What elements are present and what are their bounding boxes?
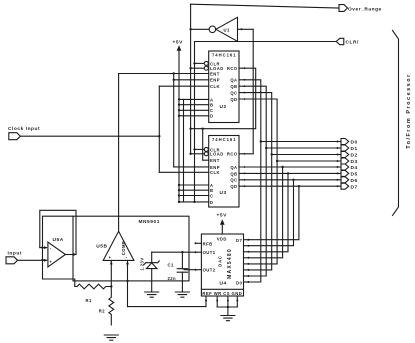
- wire ENT U2: [119, 73, 209, 75]
- wire channel bus 2: [183, 99, 185, 201]
- wire R1 feed: [43, 260, 78, 287]
- wire U1 output to node: [191, 28, 210, 30]
- wire minus net up and over: [43, 216, 74, 260]
- svg-text:D6: D6: [351, 178, 358, 184]
- svg-text:LOAD: LOAD: [210, 66, 224, 71]
- svg-text:+5V: +5V: [217, 213, 228, 219]
- node D2 stub tap: [271, 153, 273, 155]
- wire B U3: [179, 189, 209, 191]
- svg-text:-: -: [50, 246, 52, 251]
- svg-text:RCO: RCO: [227, 152, 238, 157]
- wire comparator to ENT vertical: [118, 74, 120, 232]
- svg-text:OUT2: OUT2: [203, 268, 216, 273]
- connector D1: [337, 147, 339, 149]
- wire U1 input: [238, 28, 254, 30]
- capacitor C1 22n: [181, 252, 183, 269]
- svg-text:U2: U2: [220, 104, 227, 110]
- wire C U3: [179, 195, 209, 197]
- wire U2 QA to D0 column: [239, 80, 261, 282]
- svg-text:C: C: [210, 193, 213, 198]
- node D U3: [178, 201, 180, 203]
- node OUT2: [195, 269, 197, 271]
- wire clock vertical: [158, 86, 160, 172]
- wire D7 column to DAC: [248, 186, 299, 240]
- wire input: [18, 259, 47, 261]
- node feedback tap: [73, 253, 75, 255]
- svg-text:QD: QD: [230, 184, 237, 189]
- svg-text:RCO: RCO: [227, 66, 238, 71]
- node REF pin: [205, 300, 207, 302]
- svg-text:D: D: [210, 114, 213, 119]
- node U3 D tap: [193, 201, 195, 203]
- node OUT1: [195, 251, 197, 253]
- node right pin U2 QA: [244, 79, 246, 81]
- svg-text:To/From Processor: To/From Processor: [406, 73, 412, 149]
- comparator U5B: [103, 231, 134, 260]
- counter U3 74HC161: [209, 136, 239, 208]
- wire C U2: [179, 109, 209, 111]
- wire D5 column to DAC: [248, 173, 288, 251]
- resistor R1: [77, 284, 111, 289]
- node D0 stub tap: [260, 140, 262, 142]
- svg-text:+5V: +5V: [173, 40, 184, 46]
- node right pin U3 RCO: [244, 153, 246, 155]
- node B U3: [178, 189, 180, 191]
- svg-text:Clock Input: Clock Input: [8, 126, 40, 132]
- svg-text:B: B: [210, 188, 213, 193]
- svg-text:QA: QA: [230, 165, 237, 170]
- wire ENP U3: [174, 166, 209, 168]
- node R1 R2 junction: [110, 285, 112, 287]
- node D5 stub tap: [287, 172, 289, 174]
- svg-text:D: D: [210, 200, 213, 205]
- svg-text:QD: QD: [230, 97, 237, 102]
- svg-text:QA: QA: [230, 78, 237, 83]
- svg-text:B: B: [210, 103, 213, 108]
- wire to ground DAC: [227, 307, 229, 316]
- pin OUT1 wire to zener: [152, 251, 202, 253]
- node input tap: [41, 259, 43, 261]
- wire CLK U2: [159, 85, 208, 87]
- svg-text:D3: D3: [351, 159, 358, 165]
- wire DAC D3 stub: [244, 263, 249, 265]
- node minus crossing: [41, 246, 43, 248]
- svg-text:D0: D0: [351, 140, 358, 146]
- node D1 stub tap: [265, 147, 267, 149]
- wire U3 QD D7 row: [239, 185, 341, 187]
- node D4 stub tap: [281, 166, 283, 168]
- node ENP U2: [173, 79, 175, 81]
- node right pin U3 QB: [244, 173, 246, 175]
- inverter U1: [209, 26, 216, 33]
- wire U3 QC D6 row: [239, 179, 341, 181]
- connector Over_Range: [339, 5, 348, 12]
- connector CLR/: [336, 38, 344, 44]
- wire D4 column to DAC: [248, 167, 282, 258]
- pin OUT2 wire to C1: [184, 269, 201, 271]
- node D U2: [178, 115, 180, 117]
- svg-text:74HC161: 74HC161: [212, 53, 236, 58]
- node DAC pin D4: [247, 257, 249, 259]
- wire REF net: [128, 296, 207, 307]
- wire GND down: [236, 296, 238, 307]
- counter U2 74HC161: [209, 51, 239, 123]
- svg-text:D2: D2: [351, 153, 358, 159]
- svg-text:ENP: ENP: [210, 78, 220, 83]
- ground DAC: [221, 316, 235, 321]
- node jog drop: [202, 128, 204, 130]
- wire DAC D7 stub: [244, 239, 249, 241]
- svg-text:Input: Input: [8, 251, 22, 257]
- node C U3: [178, 194, 180, 196]
- wire U2 RCO jog to U3 ENT: [191, 68, 256, 129]
- wire VDD stem: [221, 225, 223, 234]
- svg-text:ENT: ENT: [210, 71, 220, 76]
- node right pin U3 QC: [244, 179, 246, 181]
- svg-text:QB: QB: [230, 171, 237, 176]
- node D6 stub tap: [292, 179, 294, 181]
- connector D5: [337, 172, 339, 174]
- pin CLR U2: [204, 61, 208, 65]
- svg-text:C1: C1: [168, 263, 174, 268]
- wire DAC D5 stub: [244, 251, 249, 253]
- wire U3 QA D4 row: [239, 166, 341, 168]
- wire U2 QC to D2 column: [239, 93, 272, 270]
- wire D6 column to DAC: [248, 180, 293, 246]
- wire bottom tie: [217, 306, 237, 308]
- wire feedback loop: [40, 210, 76, 254]
- node A U3: [178, 184, 180, 186]
- svg-text:QB: QB: [230, 84, 237, 89]
- svg-text:CLK: CLK: [210, 84, 220, 89]
- ground R2: [104, 335, 118, 340]
- node DAC pin D2: [247, 269, 249, 271]
- node GND pin: [236, 300, 238, 302]
- bracket to processor: [393, 31, 399, 216]
- wire U3 LOAD: [191, 153, 204, 155]
- wire A U2: [179, 98, 209, 100]
- connector D3: [337, 160, 339, 162]
- svg-text:A: A: [210, 97, 213, 102]
- connector D0: [337, 141, 339, 143]
- wire inverter net vertical: [190, 4, 192, 154]
- wire D3 row: [277, 160, 341, 162]
- svg-text:ENT: ENT: [210, 158, 220, 163]
- zener D1 1.23V: [151, 252, 153, 263]
- wire B U2: [179, 104, 209, 106]
- svg-text:OUT1: OUT1: [203, 250, 216, 255]
- pin RFB stub: [196, 242, 202, 244]
- svg-text:D4: D4: [351, 165, 358, 171]
- connector D7: [337, 185, 339, 187]
- wire D1 row: [266, 147, 341, 149]
- node right pin U3 QD: [244, 185, 246, 187]
- node WR pin: [216, 300, 218, 302]
- svg-text:D5: D5: [351, 172, 358, 178]
- svg-text:CLK: CLK: [210, 170, 220, 175]
- wire U2 QD to D3 column: [239, 99, 277, 264]
- node DAC pin D3: [247, 263, 249, 265]
- svg-text:C: C: [210, 108, 213, 113]
- wire DAC D4 stub: [244, 257, 249, 259]
- wire DAC D0 stub: [244, 281, 249, 283]
- svg-text:REF WR CS GND: REF WR CS GND: [202, 291, 242, 296]
- svg-text:QC: QC: [230, 178, 237, 183]
- wire CLR net vertical: [194, 42, 196, 202]
- wire clock horizontal: [20, 135, 159, 137]
- node clock split: [158, 135, 160, 137]
- wire U3 RCO to inverter: [239, 29, 253, 154]
- svg-text:U5B: U5B: [96, 243, 107, 249]
- wire C1 to ground: [181, 272, 183, 292]
- svg-text:VDD: VDD: [217, 237, 227, 242]
- wire over-range top: [191, 4, 339, 8]
- module MN5901: [73, 216, 189, 281]
- svg-text:DAC: DAC: [218, 255, 223, 266]
- wire U3 QB D5 row: [239, 172, 341, 174]
- svg-text:MAX5480: MAX5480: [227, 248, 233, 279]
- node DAC pin D1: [247, 275, 249, 277]
- wire D U3: [179, 201, 209, 203]
- node right pin U2 QC: [244, 92, 246, 94]
- svg-text:RFB: RFB: [203, 242, 213, 247]
- node tie center: [227, 306, 229, 308]
- svg-text:+: +: [49, 259, 52, 264]
- node jog on inverter column: [189, 128, 191, 130]
- svg-text:22n: 22n: [168, 276, 177, 281]
- wire CLR net horizontal: [195, 41, 337, 43]
- ground zener: [145, 292, 159, 297]
- ground C1: [175, 292, 189, 297]
- node minus box crossing: [126, 280, 128, 282]
- wire ENT chain vertical: [173, 74, 175, 167]
- wire WR down: [216, 296, 218, 307]
- svg-text:CLR/: CLR/: [346, 40, 360, 46]
- node A U2: [178, 98, 180, 100]
- svg-text:74HC161: 74HC161: [212, 137, 236, 142]
- node right pin U2 QD: [244, 98, 246, 100]
- wire D U2: [179, 115, 209, 117]
- wire jog drop to U3 ENT: [203, 129, 209, 161]
- node D7 stub tap: [298, 185, 300, 187]
- svg-text:D0: D0: [236, 280, 242, 285]
- pin LOAD U2: [204, 66, 208, 70]
- wire A U3: [179, 184, 209, 186]
- wire U2 QB to D1 column: [239, 86, 266, 276]
- svg-text:LOAD: LOAD: [210, 152, 224, 157]
- svg-text:Over_Range: Over_Range: [348, 6, 382, 12]
- svg-text:1.23V: 1.23V: [139, 257, 144, 270]
- node DAC pin D7: [247, 239, 249, 241]
- svg-text:U4: U4: [220, 281, 227, 287]
- wire zener to ground: [151, 269, 153, 292]
- node LOAD U3 tap: [189, 153, 191, 155]
- svg-text:+: +: [109, 255, 112, 260]
- node LOAD U2 tap: [189, 67, 191, 69]
- connector D6: [337, 179, 339, 181]
- wire comparator plus stub: [110, 260, 112, 286]
- wire CLK U3: [159, 171, 208, 173]
- node U1 output: [189, 28, 191, 30]
- wire U2 CLR: [195, 62, 204, 64]
- svg-text:ENP: ENP: [210, 165, 220, 170]
- wire U5A output: [65, 254, 76, 256]
- wire D2 row: [272, 154, 341, 156]
- wire ENP U2: [174, 79, 209, 81]
- svg-text:D1: D1: [351, 146, 358, 152]
- node right pin U2 QB: [244, 85, 246, 87]
- svg-text:U5A: U5A: [53, 237, 64, 243]
- svg-text:U1: U1: [224, 27, 230, 32]
- svg-text:R1: R1: [86, 298, 92, 303]
- node right pin U2 RCO: [244, 67, 246, 69]
- svg-text:U3: U3: [220, 190, 227, 196]
- node DAC pin D0: [247, 281, 249, 283]
- wire CS down: [227, 296, 229, 307]
- wire DAC D2 stub: [244, 269, 249, 271]
- wire D0 row: [261, 141, 341, 143]
- svg-text:D7: D7: [351, 184, 358, 190]
- node CLR U2 tap: [193, 62, 195, 64]
- node right pin U3 QA: [244, 166, 246, 168]
- op-amp U5A: [48, 242, 66, 267]
- wire DAC D6 stub: [244, 245, 249, 247]
- wire U3 CLR: [195, 148, 204, 150]
- svg-text:COMP: COMP: [121, 241, 126, 255]
- wire comparator minus stub: [127, 260, 129, 306]
- node CS pin: [227, 300, 229, 302]
- node U3 CLR tap: [193, 148, 195, 150]
- node DAC pin D5: [247, 251, 249, 253]
- svg-text:QC: QC: [230, 91, 237, 96]
- wire DAC D1 stub: [244, 275, 249, 277]
- svg-text:-: -: [126, 255, 128, 260]
- wire U2 LOAD: [191, 67, 204, 69]
- svg-text:D7: D7: [236, 238, 242, 243]
- pin CLR U3: [204, 147, 208, 151]
- svg-text:R2: R2: [99, 308, 105, 313]
- node DAC pin D6: [247, 245, 249, 247]
- node ENT chain: [173, 72, 175, 74]
- wire +5V bus: [178, 51, 180, 202]
- wire inverting input: [40, 247, 47, 249]
- connector D2: [337, 154, 339, 156]
- connector D4: [337, 166, 339, 168]
- svg-text:MN5901: MN5901: [139, 219, 160, 225]
- node U1 input pin: [241, 28, 243, 30]
- pin LOAD U3: [204, 152, 208, 156]
- resistor R2: [109, 287, 114, 326]
- node RFB: [195, 242, 197, 244]
- node C U2: [178, 109, 180, 111]
- node D3 stub tap: [276, 160, 278, 162]
- DAC U4 MAX5480: [201, 234, 243, 296]
- node B U2: [178, 104, 180, 106]
